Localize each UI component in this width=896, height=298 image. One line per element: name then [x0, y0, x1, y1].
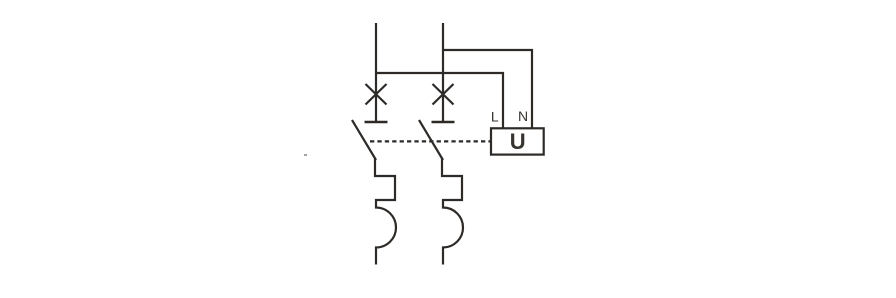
fixed contact bar pole 2: [432, 121, 455, 124]
pole 1 supply line: [375, 23, 377, 122]
svg-text:L: L: [491, 109, 499, 125]
undervoltage release box U1: [491, 128, 544, 154]
svg-text:U: U: [510, 129, 526, 154]
svg-text:N: N: [518, 108, 528, 124]
pole 2 supply line: [442, 23, 444, 122]
switch blade pole 1: [352, 120, 376, 160]
contact cross pole 1: [366, 84, 387, 105]
stray speck: [304, 154, 307, 156]
switch blade pole 2: [419, 120, 443, 160]
fixed contact bar pole 1: [365, 121, 388, 124]
trip linkage dashed line: [370, 140, 491, 142]
wire L: tap from pole 1 to release: [376, 73, 503, 129]
thermal + magnetic release pole 2: [442, 159, 463, 265]
contact cross pole 2: [433, 84, 454, 105]
thermal + magnetic release pole 1: [375, 159, 396, 265]
wire N: tap from pole 2 to release: [443, 50, 532, 129]
